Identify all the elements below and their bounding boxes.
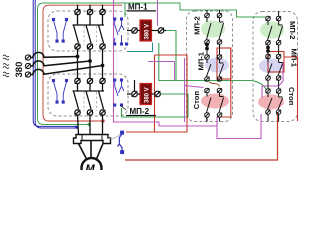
svg-text:МП-2: МП-2	[288, 21, 297, 40]
svg-text:Стоп: Стоп	[192, 91, 201, 110]
svg-text:МП-1: МП-1	[290, 49, 299, 68]
svg-text:МП-1: МП-1	[128, 3, 148, 12]
svg-text:380 V: 380 V	[145, 24, 151, 40]
svg-text:380: 380	[14, 62, 25, 78]
svg-text:МП-2: МП-2	[193, 16, 202, 35]
svg-text:МП-2: МП-2	[130, 107, 150, 116]
svg-text:МП-1: МП-1	[197, 51, 206, 70]
svg-text:Стоп: Стоп	[287, 87, 296, 106]
svg-text:380 V: 380 V	[145, 87, 151, 103]
svg-text:M: M	[86, 163, 96, 170]
